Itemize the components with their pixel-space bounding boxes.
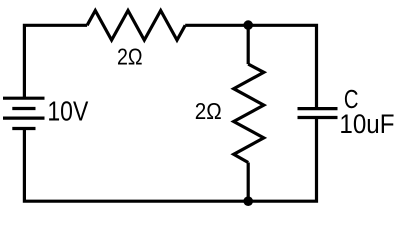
node B junction dot bbox=[243, 196, 253, 206]
svg-text:10V: 10V bbox=[47, 95, 88, 126]
resistor R2 bbox=[234, 64, 264, 162]
wire bottom (battery - through node B to capacitor bottom) bbox=[24, 118, 316, 202]
svg-text:2Ω: 2Ω bbox=[117, 44, 143, 70]
svg-text:2Ω: 2Ω bbox=[195, 98, 222, 124]
node A junction dot bbox=[243, 20, 253, 30]
battery V1 bbox=[3, 98, 45, 128]
wire top-right (R1 through node A to capacitor top) bbox=[185, 25, 316, 108]
wire top-left (battery + up to R1 left lead) bbox=[24, 25, 87, 98]
wire node A to R2 top bbox=[247, 25, 250, 64]
wire R2 bottom to node B bbox=[247, 163, 250, 202]
capacitor C1 bbox=[298, 109, 338, 118]
resistor R1 bbox=[87, 11, 185, 41]
svg-text:10uF: 10uF bbox=[339, 109, 394, 139]
